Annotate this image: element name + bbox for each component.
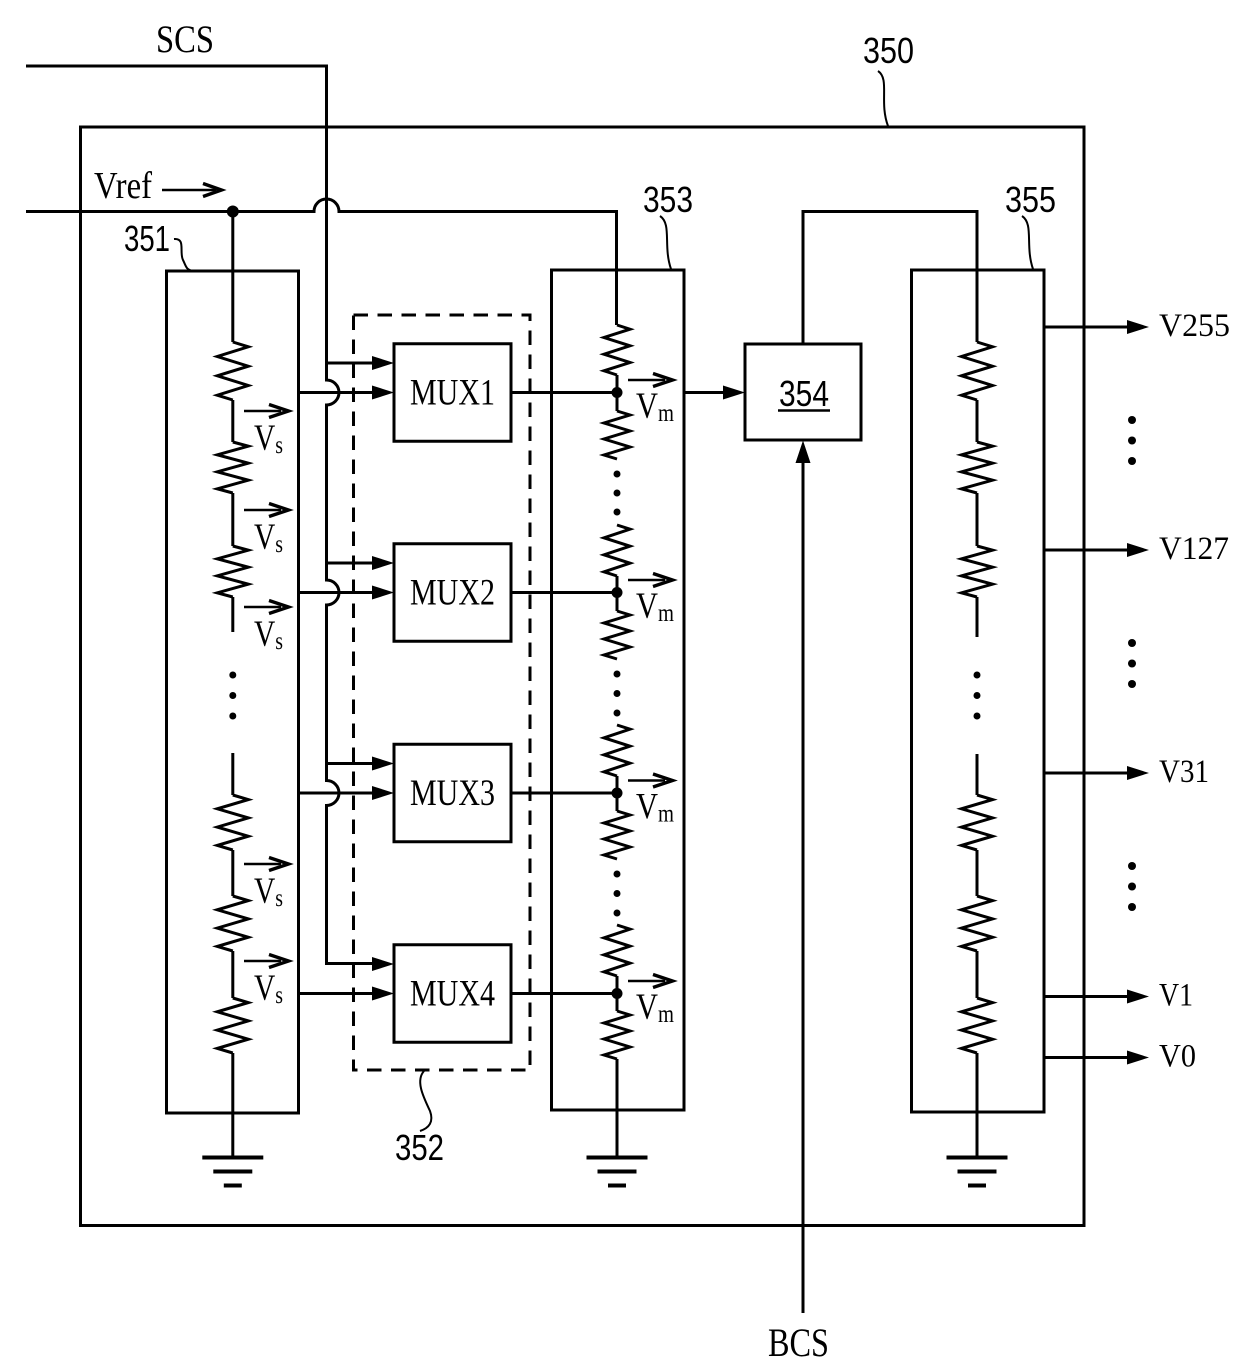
value label Vm 1 [636,386,674,427]
block 352 dashed box (MUX group) [354,315,531,1070]
arrowhead MUX1 input 2 [372,386,394,400]
wire lead [976,493,979,546]
ellipsis dots in 353 ladder [614,471,621,516]
label V255 [1159,308,1230,344]
svg-text:MUX4: MUX4 [410,974,495,1015]
resistor 353 ladder R1 [604,325,630,375]
ground under 355 [947,1158,1008,1186]
arrowhead MUX4 input 2 [372,987,394,1001]
multiplexer MUX1 box [394,344,511,442]
label V1 [1159,978,1193,1014]
resistor 355 R2 [962,442,993,493]
value label Vs 3 [254,614,283,655]
value label Vm 2 [636,586,674,627]
label Vref [94,165,152,207]
leader 355 [1022,216,1033,269]
wire output tap V255 [1044,326,1127,329]
block 353 box (second resistor string) [552,270,685,1110]
ground under 351 [202,1158,263,1186]
svg-text:V31: V31 [1159,754,1209,790]
arrowhead into 354 [723,386,745,400]
wire SCS tee to MUX1 input 1 [327,362,373,365]
arrowhead BCS into 354 [796,441,811,464]
wire SCS: top horizontal then vertical with hops over MUX row wires [26,66,373,964]
resistor 351 R3 [217,546,248,597]
wire 351 ladder bottom lead to ground [231,1053,234,1158]
node Vm junction 3 on 353 ladder [612,788,623,799]
label MUX2 [410,573,495,614]
arrow over Vs label 2 [244,504,289,517]
svg-text:V255: V255 [1159,308,1230,344]
ellipsis dots in 353 ladder [614,871,621,917]
ellipsis dots in 355 ladder [974,672,981,720]
wire 351 tap to MUX3 input 2 [299,792,373,795]
resistor 351 R5 [217,896,248,951]
junction dot Vref / 351 ladder [227,206,239,218]
wire MUX1 output to 353 ladder junction [511,391,617,394]
arrowhead MUX3 input 1 [372,757,394,771]
label MUX1 [410,373,495,414]
label BCS [768,1320,829,1365]
arrowhead MUX2 input 1 [372,556,394,570]
value label Vs 2 [254,517,283,558]
svg-text:SCS: SCS [156,18,214,61]
block 355 box (output resistor string) [912,270,1045,1112]
wire SCS tee to MUX2 input 1 [327,562,373,565]
node Vm junction 1 on 353 ladder [612,387,623,398]
wire lead [231,597,234,632]
multiplexer MUX3 box [394,744,511,842]
wire lead [616,576,619,611]
wire lead [976,754,979,795]
wire 351 tap to MUX1 input 2 [299,391,373,394]
wire lead [616,776,619,811]
svg-text:V127: V127 [1159,531,1229,567]
wire output tap V1 [1044,995,1127,998]
resistor 355 R6 [962,998,993,1053]
arrowhead MUX3 input 2 [372,786,394,800]
svg-text:BCS: BCS [768,1320,829,1365]
wire lead [231,753,234,795]
wire MUX4 output to 353 ladder junction [511,992,617,995]
svg-text:Vref: Vref [94,165,152,207]
wire lead [976,850,979,896]
label 352 [395,1127,444,1168]
block 354 box [745,344,861,440]
svg-text:V0: V0 [1159,1039,1196,1075]
arrowhead V127 [1127,543,1149,557]
label V31 [1159,754,1209,790]
svg-text:MUX1: MUX1 [410,373,495,414]
label V0 [1159,1039,1196,1075]
wire 351 tap to MUX4 input 2 [299,992,373,995]
wire SCS tee to MUX3 input 1 [327,762,373,765]
wire 353 output to block 354 [684,391,723,394]
wire lead [976,597,979,637]
wire 351 ladder top lead [231,212,234,343]
wire lead [231,400,234,442]
svg-text:354: 354 [779,373,829,414]
svg-text:353: 353 [643,179,693,220]
arrow over Vm label 4 [628,975,673,988]
value label Vm 4 [636,987,674,1028]
wire BCS up into 354 bottom [802,462,805,1313]
resistor 353 ladder R3 [604,525,630,576]
multiplexer MUX2 box [394,544,511,642]
resistor 355 R4 [962,795,993,850]
value label Vs 4 [254,871,283,912]
wire MUX2 output to 353 ladder junction [511,591,617,594]
ellipsis dots in 353 ladder [614,671,621,717]
arrowhead V0 [1127,1051,1149,1065]
resistor 353 ladder R6 [604,811,630,859]
resistor 355 R3 [962,546,993,597]
label SCS [156,18,214,61]
wire 354 top to 355 ladder top [803,212,977,345]
svg-text:352: 352 [395,1127,444,1168]
resistor 355 R1 [962,342,993,400]
label 354 (underlined) [779,373,829,414]
resistor 351 R2 [217,442,248,493]
block 350 outer box [81,127,1085,1226]
resistor 351 R4 [217,795,248,850]
wire lead [231,850,234,896]
label 351 [124,218,170,259]
wire lead [976,951,979,998]
arrowhead V1 [1127,990,1149,1004]
ellipsis dots between output labels [1128,416,1136,465]
label V127 [1159,531,1229,567]
value label Vs 1 [254,418,283,459]
resistor 353 ladder R5 [604,725,630,776]
arrowhead V255 [1127,320,1149,334]
resistor 353 ladder R4 [604,611,630,659]
label MUX4 [410,974,495,1015]
svg-text:350: 350 [863,30,914,71]
wire output tap V127 [1044,549,1127,552]
wire output tap V0 [1044,1056,1127,1059]
leader 352 [420,1071,431,1131]
wire 351 tap to MUX2 input 2 [299,591,373,594]
wire lead [616,375,619,411]
svg-text:351: 351 [124,218,170,259]
multiplexer MUX4 box [394,945,511,1043]
arrowhead V31 [1127,766,1149,780]
arrow over Vs label 1 [244,405,289,418]
wire lead [231,951,234,998]
value label Vm 3 [636,787,674,828]
resistor 353 ladder R8 [604,1011,630,1059]
ellipsis dots between output labels [1128,639,1136,688]
resistor 353 ladder R2 [604,411,630,459]
value label Vs 5 [254,968,283,1009]
arrow over Vm label 2 [628,574,673,587]
resistor 351 R1 [217,342,248,400]
svg-text:MUX3: MUX3 [410,773,495,814]
arrow over Vs label 5 [244,955,289,968]
arrowhead MUX2 input 2 [372,586,394,600]
resistor 355 R5 [962,896,993,951]
ellipsis dots in 351 ladder [229,672,236,720]
arrow over Vm label 3 [628,774,673,787]
svg-text:V1: V1 [1159,978,1193,1014]
wire MUX3 output to 353 ladder junction [511,792,617,795]
arrowhead MUX1 input 1 [372,356,394,370]
svg-text:MUX2: MUX2 [410,573,495,614]
arrow after Vref label [162,184,222,197]
node Vm junction 2 on 353 ladder [612,587,623,598]
svg-text:355: 355 [1005,179,1056,220]
label MUX3 [410,773,495,814]
node Vm junction 4 on 353 ladder [612,988,623,999]
arrowhead MUX4 input 1 [372,957,394,971]
wire lead [231,493,234,546]
wire lead [616,976,619,1011]
wire 355 ladder bottom lead to ground [976,1053,979,1158]
label 350 [863,30,914,71]
ellipsis dots between output labels [1128,862,1136,911]
wire output tap V31 [1044,772,1127,775]
wire 353 ladder bottom lead to ground [616,1059,619,1158]
arrow over Vs label 4 [244,858,289,871]
wire Vref: horizontal with hop over SCS vertical, then down into block 353 ladder [26,199,617,325]
block 351 box (first resistor string) [167,271,299,1113]
resistor 353 ladder R7 [604,925,630,976]
leader 351 [174,239,193,271]
wire lead [976,400,979,442]
ground under 353 [587,1158,648,1186]
arrow over Vm label 1 [628,374,673,387]
leader 353 [660,216,671,269]
label 355 [1005,179,1056,220]
leader 350 [878,71,888,126]
resistor 351 R6 [217,998,248,1053]
label 353 [643,179,693,220]
arrow over Vs label 3 [244,601,289,614]
